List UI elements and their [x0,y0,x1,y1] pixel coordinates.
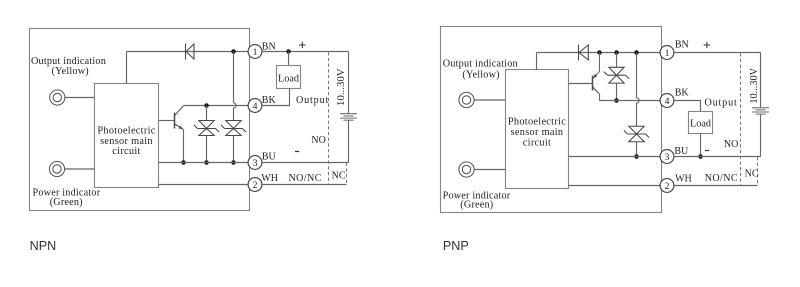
svg-text:BN: BN [262,41,276,52]
wire BN line (internal) [537,52,661,54]
node: BN branch to zener Z2 [231,49,236,54]
bidirectional zener Z3 [616,53,618,68]
wire WH line (internal) [569,185,661,187]
svg-text:NO/NC: NO/NC [705,173,738,184]
terminal 2 [248,178,262,192]
LED indicator (yellow output) [50,90,65,105]
wire battery positive [348,52,350,114]
svg-text:(Green): (Green) [460,200,493,211]
wire BN node to hop over BK [636,53,638,98]
svg-text:NO/NC: NO/NC [289,173,322,184]
svg-text:(Green): (Green) [50,197,83,208]
wire battery negative [760,115,762,157]
photoelectric sensor main circuit block [506,70,569,189]
wire LED2 to main circuit [65,168,95,170]
node: emitter branch [597,50,602,55]
terminal 3 [248,156,262,170]
svg-text:PNP: PNP [443,239,469,253]
wire LED1 to main circuit [65,97,95,99]
svg-text:BK: BK [675,87,690,98]
svg-text:4: 4 [253,101,258,112]
terminal 3 [660,150,674,164]
wire BU line (internal) [159,162,249,164]
node: zener Z1 top [204,103,209,108]
bidirectional zener Z1 [206,106,208,121]
wire BU line (internal) [569,156,661,158]
terminal 4 [248,99,262,113]
svg-text:Load: Load [690,118,711,129]
svg-text:(Yellow): (Yellow) [52,66,89,77]
wire BK line (internal) [184,105,249,107]
svg-text:(Yellow): (Yellow) [462,69,499,80]
sensor enclosure box (NPN) [30,29,250,211]
diode D1 (reverse protection) [185,44,187,60]
svg-text:BN: BN [675,39,689,50]
wire WH external [262,184,347,186]
wire hop (no connection) over BK line [637,98,640,103]
transistor Q2 (PNP) [593,74,597,78]
wire LED2 to main circuit [474,169,505,171]
wire BK line (internal) [600,100,661,102]
label + [299,42,306,49]
svg-text:BK: BK [262,95,277,106]
dashed NO select wire [328,52,330,184]
svg-text:10...30V: 10...30V [749,67,760,103]
wire BU external to battery [262,162,349,164]
sensor enclosure box (PNP) [441,27,662,213]
svg-text:circuit: circuit [112,146,140,157]
node: load branch [286,49,291,54]
label: Power indicator (Green) [443,190,511,210]
svg-text:BU: BU [262,151,277,162]
wire load to BU line [700,134,702,157]
svg-text:WH: WH [261,173,278,184]
svg-text:WH: WH [675,174,692,185]
svg-text:4: 4 [665,96,670,107]
svg-text:Photoelectric: Photoelectric [97,126,155,137]
svg-text:1: 1 [253,47,258,58]
wire node to load [288,52,290,66]
diode D2 (reverse protection) [578,45,580,61]
wire BN external to battery [262,51,349,53]
LED indicator (green power) [459,162,474,177]
wire battery positive [760,53,762,108]
wire base of Q1 [159,120,175,122]
terminal 1 [248,45,262,59]
label minus [705,150,709,152]
svg-text:Load: Load [278,73,299,84]
svg-text:NC: NC [745,169,759,180]
LED indicator (yellow output) [459,92,474,107]
terminal 1 [660,46,674,60]
LED indicator (green power) [49,161,64,176]
bidirectional zener Z2 [226,121,241,129]
svg-text:3: 3 [253,158,258,169]
label: Output indication (Yellow) [443,58,518,80]
wire collector of Q2 to BK [599,94,601,100]
photoelectric sensor main circuit block [95,84,159,188]
wire emitter of Q2 [593,53,600,79]
load box [277,66,301,89]
wire BN line (internal) [127,51,249,53]
label + [704,42,711,49]
wire hop (no connection) over BK line [234,103,237,108]
wire BK to load [674,101,701,112]
svg-text:2: 2 [665,181,670,192]
dashed NC select wire [757,157,759,186]
node: zener Z4 branch [634,50,639,55]
svg-text:Output: Output [296,95,329,106]
svg-text:3: 3 [665,152,670,163]
bidirectional zener Z4 [629,126,644,134]
wire battery negative [348,121,350,163]
label: Power indicator (Green) [33,187,101,208]
svg-text:BU: BU [674,146,689,157]
wire WH line (internal) [159,184,249,186]
dashed NO select wire [740,53,742,185]
wire LED1 to main circuit [474,99,505,101]
svg-text:NO: NO [311,135,325,146]
wire base of Q2 [569,83,593,85]
svg-text:1: 1 [665,48,670,59]
wire BN external to battery [674,52,761,54]
wire WH external [674,185,758,187]
label: Output indication (Yellow) [31,56,106,77]
wire emitter of Q1 to BU [183,129,185,162]
label minus [295,151,299,153]
wire circuit top to BN line [536,53,538,70]
svg-text:Output indication: Output indication [443,58,518,69]
svg-text:10...30V: 10...30V [335,68,347,106]
svg-text:circuit: circuit [523,137,551,148]
load box [689,112,713,134]
terminal 4 [660,94,674,108]
dashed NC select wire [346,163,348,185]
wire circuit top to BN line [126,52,128,84]
battery B2 10...30V [752,108,769,114]
battery B1 10...30V [340,114,357,121]
svg-text:2: 2 [253,180,258,191]
wire load to BK terminal [262,89,290,106]
transistor Q1 (NPN) [174,113,176,129]
wire node to hop over BK [233,52,235,103]
svg-text:NPN: NPN [30,239,57,253]
svg-text:Output: Output [705,97,738,108]
wire BU external to battery [674,156,761,158]
terminal 2 [660,179,674,193]
svg-text:NO: NO [724,139,738,150]
node: zener Z3 top [614,50,619,55]
svg-text:NC: NC [332,170,346,181]
